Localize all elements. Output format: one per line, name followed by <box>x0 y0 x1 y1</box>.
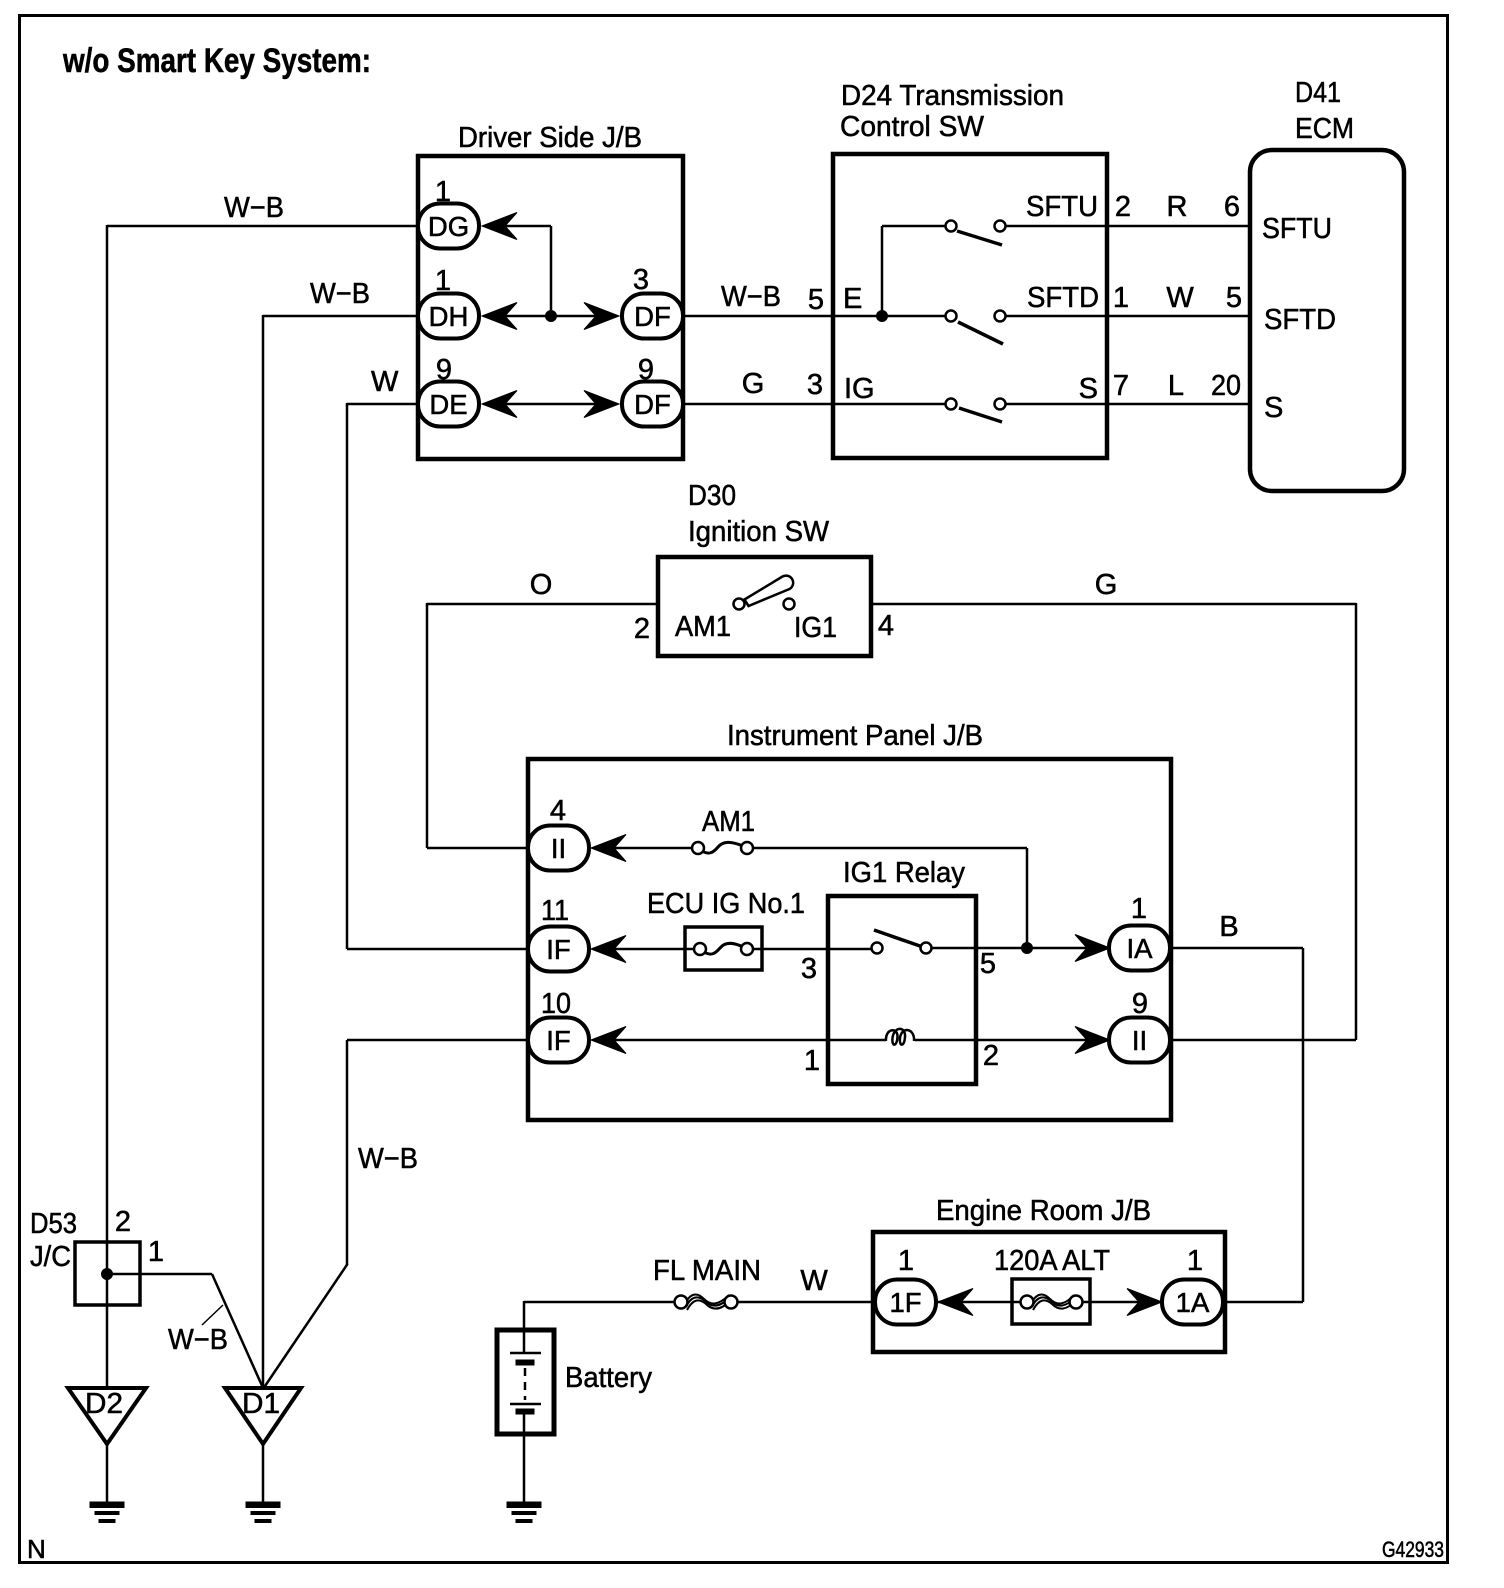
wire W-B from DF pin3 to D24 pin5 E <box>682 315 945 318</box>
svg-text:Ignition SW: Ignition SW <box>688 516 830 548</box>
wire O from ignition SW pin2 to II pin4 <box>427 603 658 606</box>
ground point D2 <box>68 1388 146 1444</box>
svg-text:O: O <box>530 569 553 601</box>
wire W-B from DH pin1 down to D1 <box>263 315 418 318</box>
fusible link FL MAIN <box>685 1295 729 1304</box>
svg-text:DF: DF <box>634 301 671 332</box>
ground point D1 <box>225 1388 301 1444</box>
wire G from DF pin9 to D24 pin3 IG <box>682 403 945 406</box>
svg-text:IF: IF <box>546 934 570 965</box>
svg-text:11: 11 <box>541 895 569 927</box>
svg-text:1: 1 <box>435 176 451 208</box>
connector DF pin 3 <box>622 294 683 339</box>
svg-text:IF: IF <box>546 1025 570 1056</box>
svg-text:1: 1 <box>148 1236 164 1268</box>
ignition switch contact AM1 <box>734 599 745 610</box>
svg-text:D53: D53 <box>30 1208 77 1240</box>
svg-text:D30: D30 <box>688 480 736 512</box>
svg-text:1A: 1A <box>1176 1287 1210 1318</box>
svg-text:W: W <box>1166 282 1194 314</box>
connector IA pin 1 <box>1109 926 1170 971</box>
battery <box>497 1330 554 1434</box>
wire W-B from DG pin1 to D53/D2 <box>107 225 418 228</box>
svg-text:3: 3 <box>633 264 649 296</box>
ground symbol under D2 <box>90 1502 124 1508</box>
svg-text:2: 2 <box>983 1040 999 1072</box>
svg-text:1: 1 <box>1187 1245 1203 1277</box>
fuse AM1 <box>702 842 743 853</box>
wire from fuse ECU IG No.1 to IG1 relay pin3 <box>747 948 877 951</box>
svg-text:S: S <box>1264 392 1283 424</box>
wire from battery to FL MAIN <box>524 1301 681 1304</box>
connector IF pin 11 <box>528 927 589 972</box>
node inside D53 <box>102 1269 113 1280</box>
wire from II pin4 to fuse AM1 <box>601 847 698 850</box>
wire from IF pin10 to IG1 relay pin1 coil <box>601 1039 886 1042</box>
arrow into IF pin10 <box>591 1027 626 1054</box>
switch box D30 Ignition SW <box>658 557 871 656</box>
svg-text:E: E <box>843 283 862 315</box>
arrow out to DF pin3 <box>584 303 619 330</box>
svg-text:5: 5 <box>980 948 996 980</box>
svg-text:W−B: W−B <box>310 278 370 310</box>
arrow into 1A <box>1127 1289 1162 1316</box>
svg-text:Instrument Panel J/B: Instrument Panel J/B <box>727 720 983 752</box>
svg-text:W: W <box>800 1265 828 1297</box>
arrow into IF pin11 <box>591 936 626 963</box>
arrow into II pin4 <box>591 835 626 862</box>
svg-text:W−B: W−B <box>358 1143 418 1175</box>
fusible link 120A ALT <box>1012 1279 1090 1324</box>
svg-text:IG1: IG1 <box>794 612 837 644</box>
arrow into IA pin1 <box>1075 935 1110 962</box>
svg-text:5: 5 <box>808 284 824 316</box>
wire B from IA pin1 to Engine Room J/B 1A <box>1168 947 1303 950</box>
wire from IG1 relay coil pin2 to II pin9 <box>915 1039 1110 1042</box>
connector DG pin 1 <box>418 204 479 249</box>
svg-text:DE: DE <box>429 389 467 420</box>
svg-text:FL MAIN: FL MAIN <box>653 1255 761 1287</box>
wire battery negative to ground <box>523 1414 526 1502</box>
svg-text:D2: D2 <box>85 1388 123 1420</box>
svg-text:10: 10 <box>541 988 571 1020</box>
svg-text:B: B <box>1219 911 1238 943</box>
svg-text:D1: D1 <box>242 1388 280 1420</box>
connector DE pin 9 <box>418 382 479 427</box>
svg-text:4: 4 <box>878 610 894 642</box>
connector II pin 9 <box>1109 1018 1170 1063</box>
svg-text:7: 7 <box>1113 370 1129 402</box>
wire L from D24 pin7 to ECM pin20 S <box>1006 403 1250 406</box>
arrow out to DF pin9 <box>584 391 619 418</box>
svg-text:SFTU: SFTU <box>1262 213 1332 245</box>
connector IF pin 10 <box>528 1018 589 1063</box>
wire inside Driver Side J/B DH-DF row <box>505 315 598 318</box>
svg-text:DG: DG <box>428 211 469 242</box>
svg-text:W: W <box>371 366 399 398</box>
svg-text:Battery: Battery <box>565 1362 652 1394</box>
junction box Engine Room J/B <box>873 1232 1225 1352</box>
connector DF pin 9 <box>622 382 683 427</box>
relay coil <box>886 1029 914 1045</box>
svg-text:4: 4 <box>550 795 566 827</box>
svg-text:2: 2 <box>1115 191 1131 223</box>
svg-text:5: 5 <box>1226 282 1242 314</box>
junction connector D53 J/C <box>75 1242 140 1305</box>
wire from IG1 relay switch to IA pin1 <box>926 947 1110 950</box>
svg-text:w/o Smart Key System:: w/o Smart Key System: <box>62 42 371 80</box>
wire inside Driver Side J/B DG branch <box>505 225 551 228</box>
node E junction <box>877 311 888 322</box>
arrow into DE <box>482 391 517 418</box>
wire D1 to ground <box>262 1444 265 1502</box>
svg-text:3: 3 <box>801 953 817 985</box>
wire from fuse AM1 to IG1 relay pin5 junction <box>747 847 1027 850</box>
wire W-B from IF pin10 down to D1 <box>347 1039 528 1042</box>
arrow into 1F <box>938 1289 973 1316</box>
wire W from DE pin9 to IF pin11 <box>347 403 418 406</box>
svg-text:ECU IG No.1: ECU IG No.1 <box>647 888 805 920</box>
svg-text:20: 20 <box>1211 370 1241 402</box>
svg-text:D41: D41 <box>1295 77 1341 109</box>
svg-text:AM1: AM1 <box>702 806 755 838</box>
ignition switch lever <box>745 576 794 606</box>
svg-text:D24 Transmission: D24 Transmission <box>841 80 1064 112</box>
svg-text:G: G <box>1095 569 1118 601</box>
ignition switch contact IG1 <box>784 599 795 610</box>
svg-text:G: G <box>742 368 765 400</box>
arrow into DH <box>482 303 517 330</box>
fuse ECU IG No.1 <box>685 927 762 970</box>
svg-text:3: 3 <box>807 369 823 401</box>
wire inside D24 riser from E junction <box>881 226 884 316</box>
arrow into DG <box>482 213 517 240</box>
connector DH pin 1 <box>418 294 479 339</box>
ECU box D41 ECM <box>1250 150 1404 491</box>
svg-text:J/C: J/C <box>30 1241 71 1273</box>
wire from D53 pin1 to D1 <box>107 1273 212 1276</box>
svg-text:II: II <box>551 833 566 864</box>
junction box Instrument Panel J/B <box>528 759 1171 1120</box>
svg-text:IA: IA <box>1127 933 1154 964</box>
wire from FL MAIN to Engine Room J/B 1F <box>737 1301 875 1304</box>
svg-text:W−B: W−B <box>224 192 284 224</box>
wire D2 to ground <box>106 1444 109 1502</box>
svg-text:SFTD: SFTD <box>1027 282 1099 314</box>
svg-text:IG: IG <box>844 373 875 405</box>
svg-text:1: 1 <box>1113 282 1129 314</box>
junction node in Driver Side J/B <box>546 311 557 322</box>
svg-text:1: 1 <box>898 1245 914 1277</box>
svg-text:Control SW: Control SW <box>840 111 985 143</box>
switch S contacts <box>946 399 957 410</box>
wire from IF pin11 to fuse ECU IG No.1 <box>601 948 700 951</box>
svg-text:9: 9 <box>638 354 654 386</box>
switch SFTD contacts <box>946 311 957 322</box>
svg-text:N: N <box>27 1534 46 1564</box>
wire R from D24 pin2 to ECM pin6 SFTU <box>1006 225 1250 228</box>
svg-text:S: S <box>1079 373 1098 405</box>
ground symbol under battery <box>507 1502 541 1508</box>
junction box Driver Side J/B <box>418 156 683 459</box>
arrow into II pin9 <box>1075 1027 1110 1054</box>
svg-text:Driver Side J/B: Driver Side J/B <box>458 122 642 154</box>
svg-text:SFTU: SFTU <box>1026 191 1098 223</box>
relay switch contacts <box>872 943 883 954</box>
svg-text:DH: DH <box>429 301 469 332</box>
svg-text:II: II <box>1132 1025 1147 1056</box>
connector 1A pin 1 <box>1162 1280 1223 1325</box>
switch box D24 Transmission Control SW <box>833 154 1107 458</box>
svg-text:Engine Room J/B: Engine Room J/B <box>936 1195 1151 1227</box>
svg-text:ECM: ECM <box>1295 113 1354 145</box>
svg-text:SFTD: SFTD <box>1264 304 1336 336</box>
svg-text:1F: 1F <box>889 1287 921 1318</box>
wire G from ignition SW pin4 to II pin9 <box>871 603 1356 606</box>
svg-text:W−B: W−B <box>721 281 781 313</box>
ground symbol under D1 <box>246 1502 280 1508</box>
svg-text:AM1: AM1 <box>675 611 731 643</box>
leader line for W-B label <box>202 1305 223 1325</box>
svg-text:6: 6 <box>1224 191 1240 223</box>
svg-text:2: 2 <box>634 613 650 645</box>
svg-text:9: 9 <box>436 354 452 386</box>
svg-text:DF: DF <box>634 389 671 420</box>
svg-text:1: 1 <box>435 265 451 297</box>
svg-text:G42933: G42933 <box>1382 1537 1444 1562</box>
svg-text:9: 9 <box>1132 988 1148 1020</box>
svg-text:1: 1 <box>1131 893 1147 925</box>
svg-text:120A ALT: 120A ALT <box>994 1245 1110 1277</box>
connector 1F pin 1 <box>875 1280 936 1325</box>
svg-text:R: R <box>1167 191 1188 223</box>
svg-text:1: 1 <box>804 1045 820 1077</box>
svg-text:IG1 Relay: IG1 Relay <box>843 857 965 889</box>
svg-text:L: L <box>1168 370 1184 402</box>
relay box IG1 Relay <box>828 896 976 1084</box>
connector II pin 4 <box>528 826 589 871</box>
wire inside Driver Side J/B DE-DF row <box>505 403 598 406</box>
wire W from D24 pin1 to ECM pin5 SFTD <box>1006 315 1250 318</box>
switch SFTU contacts <box>946 221 957 232</box>
junction node AM1/IA <box>1022 943 1033 954</box>
svg-text:2: 2 <box>115 1206 131 1238</box>
svg-text:W−B: W−B <box>168 1324 228 1356</box>
wire inside Engine Room J/B row <box>935 1301 1027 1304</box>
